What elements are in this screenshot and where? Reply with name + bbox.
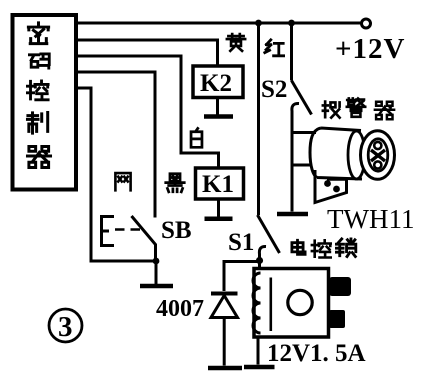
label 控: [27, 81, 48, 100]
wire black to SB fixed contact: [76, 72, 155, 218]
label 控(2): [312, 240, 331, 257]
node junction dot A (red wire): [255, 20, 262, 27]
label 制: [27, 112, 47, 133]
label 红: [265, 40, 284, 56]
wire K1 to ground: [217, 199, 220, 217]
label 锁: [336, 239, 355, 257]
label 码: [29, 54, 49, 68]
wire siren return to ground: [292, 133, 312, 212]
svg-text:4007: 4007: [156, 296, 204, 322]
label 警: [347, 98, 365, 116]
switch S2 lower contact hook and wire to siren: [292, 103, 316, 132]
svg-text:+12V: +12V: [335, 33, 405, 65]
pushbutton SB blade: [132, 216, 156, 261]
diode VD 4007 cathode bar: [211, 292, 238, 296]
switch S1 blade: [258, 215, 280, 253]
diode VD 4007 triangle: [211, 296, 238, 318]
label 黄: [227, 34, 245, 51]
siren grille X: [371, 150, 385, 161]
bracket bolt 2: [333, 186, 340, 193]
wire white to K1: [76, 56, 219, 168]
switch S2 blade: [292, 81, 312, 115]
lock terminal tab bottom: [329, 310, 345, 328]
wire S1 to diode: [224, 262, 260, 292]
relay K2: [193, 66, 243, 98]
siren horn inner ellipse: [368, 139, 388, 171]
ground for K2: [204, 114, 233, 119]
node junction dot SB common: [153, 258, 160, 265]
label 黑: [166, 174, 184, 192]
wire lock to ground: [257, 337, 260, 365]
svg-text:S1: S1: [228, 229, 254, 256]
ground for siren: [277, 212, 308, 217]
svg-text:SB: SB: [161, 217, 192, 244]
wire diode to ground: [223, 318, 226, 366]
label 器(2): [375, 102, 394, 120]
lock terminal tab top: [329, 277, 351, 296]
bracket bolt 1: [324, 180, 331, 187]
svg-text:S2: S2: [261, 76, 287, 103]
SB actuator dashed link: [115, 228, 141, 231]
lock coil: [253, 273, 261, 333]
svg-text:3: 3: [58, 311, 73, 343]
wire SB to ground: [155, 261, 158, 284]
siren horn outer ellipse: [361, 131, 395, 180]
svg-text:TWH11: TWH11: [327, 204, 414, 234]
relay K1: [196, 168, 244, 199]
siren grille top circle: [374, 142, 381, 149]
wire to SB common (left drop): [76, 88, 156, 261]
wire red down to S1: [257, 23, 260, 215]
controller box U1 (password controller): [13, 15, 77, 190]
label 报: [323, 102, 340, 118]
siren cone rim ellipse: [348, 131, 365, 179]
label 密: [28, 23, 48, 44]
ground for SB: [140, 284, 173, 289]
switch S2 upper lead: [290, 23, 293, 81]
ground for K1: [205, 216, 233, 221]
svg-text:12V1. 5A: 12V1. 5A: [267, 340, 366, 367]
siren grille bottom circle: [374, 161, 381, 168]
wire S1 to lock: [258, 261, 261, 269]
ground for lock: [244, 365, 275, 370]
switch S1 lower contact hook: [259, 246, 266, 260]
wire yellow to K2: [76, 40, 218, 66]
figure number circle 3: [49, 309, 82, 342]
label 白: [191, 128, 202, 147]
node junction dot B (S2 branch): [288, 20, 295, 27]
lock coil core line: [269, 278, 272, 332]
wire K2 to ground: [216, 98, 219, 115]
lock keyhole circle: [288, 290, 312, 314]
siren mounting bracket: [315, 170, 347, 203]
label 网: [115, 173, 130, 190]
terminal +12V open circle: [362, 19, 371, 28]
siren BL body: [310, 128, 362, 179]
svg-text:K2: K2: [200, 70, 232, 97]
SB actuator bracket: [102, 217, 115, 246]
label 器: [27, 146, 50, 167]
node junction dot S1 output: [256, 257, 263, 264]
wire top rail +12V: [76, 22, 362, 25]
label 电: [292, 240, 305, 254]
svg-text:K1: K1: [202, 171, 234, 198]
ground for diode: [208, 366, 242, 371]
electric lock box: [254, 269, 329, 338]
